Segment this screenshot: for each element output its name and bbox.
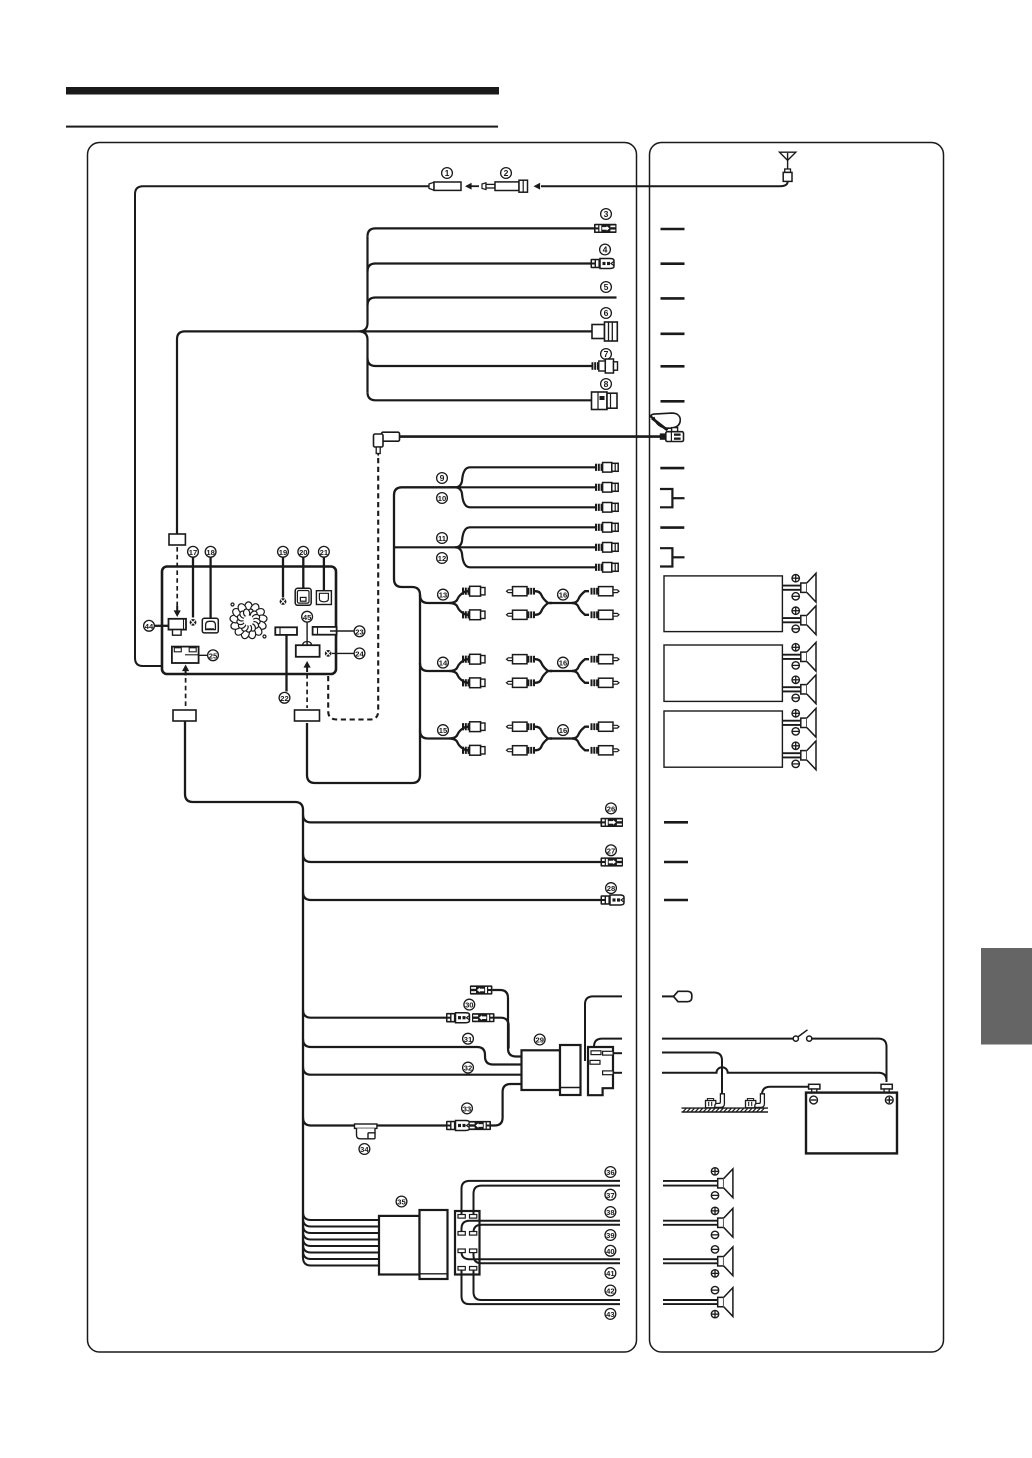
ground wire (to lug)	[662, 1053, 722, 1096]
mate pin row	[458, 1267, 465, 1271]
amplifier box 1	[664, 576, 782, 632]
mating point mark (row at y=263.7)	[661, 262, 685, 265]
label (15)	[438, 725, 449, 736]
svg-text:9: 9	[440, 473, 445, 483]
minus terminal	[792, 593, 799, 600]
speaker 38/39	[718, 1208, 733, 1237]
svg-text:29: 29	[535, 1036, 543, 1045]
bracket mark rows 12	[660, 548, 685, 566]
label (12)	[437, 553, 448, 564]
svg-text:25: 25	[209, 651, 218, 660]
svg-text:34: 34	[360, 1145, 369, 1154]
RCA plugs 9/10	[595, 463, 618, 473]
chassis hatch	[682, 1108, 769, 1112]
stem 22	[285, 635, 287, 692]
speaker 40/41	[718, 1247, 733, 1276]
port 45	[296, 642, 320, 657]
label (43)	[605, 1309, 616, 1320]
extension cable 16	[507, 587, 536, 596]
mating point mark (row at y=298.4)	[661, 297, 685, 300]
connector 2 body	[482, 180, 528, 192]
plug box feeding port 44	[169, 534, 185, 545]
wire 32	[303, 1067, 522, 1075]
plug box A	[173, 710, 196, 721]
RCA plugs 11/12	[595, 523, 618, 533]
label (38)	[605, 1207, 616, 1218]
arrow down into port 44	[174, 606, 181, 617]
label (16) cable	[558, 589, 569, 600]
switch wire (left)	[662, 1038, 794, 1040]
wire 31	[303, 1039, 522, 1065]
battery terminal plus	[881, 1084, 892, 1092]
switch wire to battery plus	[812, 1039, 887, 1082]
plus terminal	[792, 710, 799, 717]
connector 27	[601, 857, 624, 866]
mating point mark (row at y=333.8)	[661, 332, 685, 335]
title bar (redacted heading)	[66, 87, 499, 95]
label (8)	[601, 379, 612, 390]
wire 7	[368, 358, 592, 366]
lead line 44	[155, 625, 171, 627]
svg-text:33: 33	[463, 1105, 471, 1114]
speaker (amp 2.2)	[801, 675, 816, 704]
label (13)	[438, 589, 449, 600]
connector 28	[601, 895, 625, 905]
minus terminal	[792, 694, 799, 701]
label (2) antenna plug adapter	[501, 168, 512, 179]
label (19) screw	[278, 546, 289, 557]
label (33)	[462, 1103, 473, 1114]
wire fan-out into connector 35	[303, 1212, 380, 1266]
svg-text:44: 44	[145, 622, 154, 631]
speaker wire pair (amp 3.1)	[782, 721, 800, 725]
stub wire pin row1	[613, 1052, 622, 1054]
mark row 27	[664, 861, 688, 864]
label (20) USB port	[298, 546, 309, 557]
svg-text:27: 27	[607, 846, 615, 855]
battery terminal minus	[809, 1084, 820, 1092]
label (16) cable	[558, 657, 569, 668]
svg-text:16: 16	[559, 659, 567, 668]
svg-text:13: 13	[439, 591, 447, 600]
label (29) harness connector	[534, 1034, 545, 1045]
wire upper male30 down to 29	[492, 990, 521, 1057]
speaker wire pair (amp 2.2)	[782, 687, 800, 691]
wire 33	[303, 1118, 446, 1126]
svg-text:16: 16	[559, 591, 567, 600]
RCA trunk (9-15 to port 45 box)	[307, 487, 455, 783]
speaker wire pair 36/37	[663, 1181, 718, 1186]
svg-text:35: 35	[397, 1198, 406, 1207]
mating point mark (row at y=366.3)	[661, 365, 685, 368]
wire 26	[303, 814, 601, 822]
svg-text:10: 10	[438, 494, 446, 503]
polarity bottom	[711, 1231, 718, 1238]
svg-text:3: 3	[604, 209, 609, 219]
svg-text:38: 38	[606, 1208, 614, 1217]
label (4)	[600, 244, 611, 255]
port 18	[202, 618, 218, 633]
stem 18	[209, 558, 211, 620]
label (26)	[606, 803, 617, 814]
stub wire pin row2	[613, 1072, 622, 1074]
svg-text:42: 42	[606, 1287, 614, 1296]
svg-text:6: 6	[604, 308, 609, 318]
wire 27	[303, 854, 601, 862]
label (41)	[605, 1268, 616, 1279]
svg-text:28: 28	[607, 884, 615, 893]
connector 6	[592, 322, 617, 341]
port 23	[313, 627, 337, 635]
wire 28	[303, 892, 601, 900]
label (45) port	[302, 611, 313, 622]
head unit rear panel	[162, 567, 336, 675]
label (35) main harness connector	[396, 1196, 407, 1207]
speaker 36/37	[718, 1169, 733, 1198]
connector 26	[601, 818, 624, 827]
svg-text:26: 26	[607, 805, 615, 814]
fuse	[674, 991, 692, 1001]
label (40)	[605, 1245, 616, 1256]
label (22)	[279, 692, 290, 703]
svg-text:40: 40	[606, 1247, 614, 1256]
label (28)	[606, 883, 617, 894]
speaker (amp 1.1)	[801, 573, 816, 602]
svg-text:11: 11	[438, 534, 447, 543]
arrowhead toward connector 2	[534, 183, 541, 190]
stem 19	[282, 558, 284, 598]
svg-text:32: 32	[464, 1064, 472, 1073]
dashed drop from plug box	[176, 547, 178, 606]
speaker wire pair (amp 1.2)	[782, 618, 800, 622]
stem 20	[302, 558, 304, 589]
mic cable	[399, 435, 662, 438]
speaker (amp 3.2)	[801, 741, 816, 770]
stem 17	[192, 558, 194, 618]
fuse wire (right panel)	[662, 995, 675, 997]
label (44) port	[144, 620, 155, 631]
label (30)	[464, 999, 475, 1010]
wire 15 branch	[420, 727, 468, 739]
label (39)	[605, 1230, 616, 1241]
wire bundle trunk for 3-8	[360, 236, 368, 392]
stem 21	[323, 558, 325, 592]
svg-text:1: 1	[445, 168, 450, 178]
wire from box A to trunk	[185, 721, 303, 1258]
svg-text:8: 8	[604, 379, 609, 389]
svg-text:31: 31	[464, 1035, 473, 1044]
polarity bottom	[711, 1270, 718, 1277]
svg-text:16: 16	[559, 726, 567, 735]
antenna mast symbol	[780, 152, 796, 169]
speaker wire pair 40/41	[663, 1259, 718, 1263]
wire 39	[474, 1225, 621, 1232]
mating point mark (row at y=229)	[661, 228, 685, 231]
wire 40	[462, 1252, 621, 1259]
male bullet 30 (upper, loose)	[470, 985, 493, 994]
wire from antenna to arrow	[541, 181, 788, 186]
wire 36	[462, 1181, 621, 1215]
svg-text:5: 5	[604, 282, 609, 292]
fuse holder box 34	[355, 1124, 377, 1139]
label (5) bare wire	[601, 282, 612, 293]
label (17) screw	[188, 546, 199, 557]
bracket mark rows 10	[660, 489, 685, 507]
dashed route from 3.5mm plug to port 24	[328, 458, 378, 720]
female RCA jacks 15	[462, 722, 485, 732]
battery plus sign	[885, 1096, 893, 1104]
svg-text:20: 20	[299, 548, 307, 557]
wire 37	[474, 1186, 621, 1215]
speaker wire pair (amp 3.2)	[782, 753, 800, 757]
port 20	[295, 588, 311, 605]
left panel border	[88, 143, 637, 1353]
mark row 26	[664, 821, 688, 824]
wire 42	[474, 1270, 621, 1300]
microphone body	[660, 428, 684, 442]
wire from head unit to connector 1	[135, 186, 429, 666]
arrow up into port 25	[182, 665, 189, 676]
polarity bottom	[711, 1310, 718, 1317]
battery minus sign	[810, 1096, 818, 1104]
label (9)	[437, 473, 448, 484]
speaker wire pair 42/43	[663, 1300, 718, 1304]
label (6)	[601, 308, 612, 319]
svg-text:24: 24	[355, 650, 364, 659]
polarity top	[711, 1286, 718, 1293]
arrow up into port 24	[325, 659, 332, 670]
arrow between 1 and 2	[465, 183, 479, 190]
right panel border	[650, 143, 944, 1353]
svg-text:30: 30	[465, 1001, 473, 1010]
male bullet 30 (lower)	[472, 1013, 495, 1022]
microphone clip	[650, 413, 680, 430]
arrow up into port 45	[304, 661, 311, 672]
connector 4	[591, 259, 615, 269]
label (34)	[359, 1144, 370, 1155]
connector 29 body	[522, 1045, 581, 1095]
wire 4	[368, 264, 591, 272]
svg-text:23: 23	[355, 627, 363, 636]
svg-text:22: 22	[280, 694, 288, 703]
minus terminal	[792, 662, 799, 669]
svg-text:17: 17	[189, 548, 197, 557]
svg-text:2: 2	[504, 168, 509, 178]
polarity top	[711, 1168, 718, 1175]
screw 24	[325, 650, 332, 657]
svg-text:43: 43	[606, 1310, 614, 1319]
label (27)	[606, 845, 617, 856]
mate pin row	[458, 1215, 465, 1219]
svg-text:18: 18	[206, 548, 214, 557]
wire 3	[368, 228, 595, 236]
wire 14 branch	[420, 659, 468, 671]
plug box B	[295, 710, 320, 721]
svg-text:15: 15	[439, 726, 448, 735]
screw 19	[280, 598, 287, 605]
plus terminal	[792, 575, 799, 582]
label (16) cable	[558, 725, 569, 736]
antenna plug	[783, 169, 792, 181]
connector 29 mate	[588, 1047, 613, 1095]
mark row 11	[660, 526, 684, 529]
label (14)	[438, 657, 449, 668]
label (24) screw	[354, 648, 365, 659]
speaker wire pair (amp 2.1)	[782, 655, 800, 659]
amplifier box 3	[664, 711, 782, 767]
wire 41	[474, 1252, 621, 1263]
9/10 fork	[449, 467, 596, 507]
dashed drop below port 45	[306, 674, 308, 708]
port 21	[316, 591, 331, 605]
dashed drop below port 25	[185, 678, 187, 708]
label (31)	[463, 1033, 474, 1044]
label (25) port	[208, 650, 219, 661]
svg-text:39: 39	[606, 1231, 614, 1240]
connector 7	[592, 359, 618, 373]
amplifier box 2	[664, 645, 782, 701]
label (36)	[605, 1167, 616, 1178]
lead line 23	[330, 630, 354, 632]
polarity top	[711, 1246, 718, 1253]
svg-text:36: 36	[606, 1168, 614, 1177]
lead line 25	[187, 654, 208, 656]
wire male33 up into 29	[491, 1084, 522, 1126]
mate pin row	[458, 1249, 465, 1253]
cooling fan	[230, 602, 268, 640]
label (1) antenna jack	[442, 168, 453, 179]
mate pin row	[458, 1232, 465, 1236]
male bullet 33	[469, 1121, 492, 1130]
svg-text:4: 4	[603, 245, 608, 255]
plus terminal	[792, 742, 799, 749]
polarity top	[711, 1207, 718, 1214]
wire 5	[368, 298, 617, 306]
female spade 30	[446, 1013, 470, 1023]
female spade 33	[446, 1121, 470, 1131]
polarity bottom	[711, 1192, 718, 1199]
svg-text:19: 19	[279, 548, 287, 557]
label (3)	[601, 209, 612, 220]
minus terminal	[792, 728, 799, 735]
subtitle rule	[66, 126, 498, 128]
label (21) optical port	[319, 546, 330, 557]
wire male30 to connector 29	[495, 1018, 509, 1049]
port 22	[275, 627, 297, 635]
wire 6 (to plug box)	[177, 331, 592, 534]
svg-text:12: 12	[438, 554, 446, 563]
battery minus wire	[762, 1087, 808, 1095]
label (18) port	[205, 546, 216, 557]
label (10)	[437, 493, 448, 504]
svg-text:21: 21	[320, 548, 329, 557]
grey page tab	[981, 948, 1032, 1045]
wire 13 branch	[420, 591, 468, 603]
battery body	[806, 1093, 897, 1154]
connector 8	[592, 392, 618, 410]
plus terminal	[792, 607, 799, 614]
switch	[793, 1030, 812, 1041]
wire 30 (to female spade)	[303, 1010, 446, 1018]
label (37)	[605, 1189, 616, 1200]
label (23)	[354, 626, 365, 637]
svg-text:14: 14	[439, 659, 448, 668]
speaker wire pair (amp 1.1)	[782, 586, 800, 590]
extension cable 16	[507, 655, 536, 664]
3.5mm right-angle plug	[374, 432, 400, 456]
11/12 fork	[394, 527, 596, 567]
minus terminal	[792, 625, 799, 632]
svg-text:45: 45	[303, 613, 312, 622]
screw 17	[190, 619, 197, 626]
speaker (amp 1.2)	[801, 606, 816, 635]
plus terminal	[792, 644, 799, 651]
mating point mark (row at y=401.3)	[661, 400, 685, 403]
speaker wire pair 38/39	[663, 1221, 718, 1225]
stem 45	[306, 623, 308, 647]
female RCA jacks 13	[462, 586, 485, 596]
mark row 28	[664, 899, 688, 902]
svg-text:37: 37	[606, 1191, 614, 1200]
speaker 42/43	[718, 1288, 733, 1317]
label (7)	[601, 349, 612, 360]
connector 35 body	[379, 1210, 448, 1279]
extension cable 16	[507, 722, 536, 731]
minus terminal	[792, 760, 799, 767]
connector 1 body	[429, 182, 461, 190]
wire 43	[462, 1270, 621, 1304]
speaker (amp 3.1)	[801, 708, 816, 737]
female RCA jacks 14	[462, 654, 485, 664]
label (11)	[437, 533, 448, 544]
port 44	[169, 619, 187, 635]
battery constant wire with hop	[662, 1067, 887, 1082]
lead line 24	[332, 652, 354, 654]
connector 3	[594, 224, 617, 233]
wire 38	[462, 1221, 621, 1232]
wire 8	[368, 392, 592, 400]
port 25	[172, 647, 199, 663]
mark row 9	[660, 467, 684, 470]
plus terminal	[792, 676, 799, 683]
label (32)	[463, 1062, 474, 1073]
svg-text:7: 7	[604, 349, 609, 359]
connector 35 mate	[455, 1211, 480, 1275]
ground lug 1	[706, 1094, 725, 1108]
stub wire to ACC	[594, 1039, 622, 1047]
fuse lead from harness	[585, 996, 622, 1061]
label (42)	[605, 1285, 616, 1296]
speaker (amp 2.1)	[801, 642, 816, 671]
ground lug 2	[746, 1094, 765, 1108]
svg-text:41: 41	[606, 1269, 615, 1278]
